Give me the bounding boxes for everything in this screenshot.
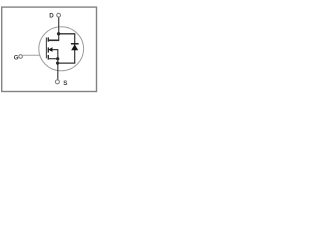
svg-text:S: S bbox=[63, 80, 67, 87]
svg-text:G: G bbox=[14, 54, 19, 61]
svg-text:D: D bbox=[49, 12, 54, 19]
